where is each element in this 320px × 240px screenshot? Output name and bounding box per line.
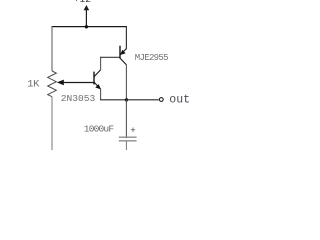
transistor Q1 2N3053 (NPN) [94, 70, 101, 90]
wiper arrow of potentiometer into resistor [57, 80, 64, 86]
svg-text:+12: +12 [74, 0, 91, 5]
resistor R 1K (potentiometer body) [48, 71, 57, 97]
svg-text:2N3053: 2N3053 [61, 93, 96, 104]
wire left rail upper segment [51, 26, 53, 71]
wire Q1 collector to Q2 base [100, 56, 120, 58]
wire Q2 collector down to output node [125, 65, 127, 101]
wire top rail horizontal [51, 26, 127, 28]
wire Q1 emitter down [100, 89, 102, 100]
svg-text:1000uF: 1000uF [84, 123, 115, 134]
svg-text:MJE2955: MJE2955 [135, 53, 168, 63]
wire capacitor to bottom edge [125, 141, 127, 150]
wire emitter elbow to output node [100, 99, 126, 101]
capacitor C1 plates [119, 137, 137, 141]
transistor Q2 MJE2955 (PNP) [120, 46, 126, 65]
wire output node down to capacitor C1 [125, 100, 127, 138]
wire wiper to base of Q1 [63, 82, 94, 84]
wire output node to terminal [126, 99, 158, 101]
wire left rail lower segment [51, 97, 53, 150]
junction dot at +12 arrow [85, 25, 88, 28]
svg-text:+: + [130, 125, 136, 136]
power arrow up to +12 [84, 5, 90, 27]
svg-text:1K: 1K [27, 78, 40, 90]
wire top rail down to Q2 emitter [125, 27, 127, 49]
svg-text:out: out [169, 94, 190, 107]
wire Q1 collector up [100, 57, 102, 71]
terminal circle out [159, 98, 163, 102]
junction dot at output node [125, 98, 128, 101]
